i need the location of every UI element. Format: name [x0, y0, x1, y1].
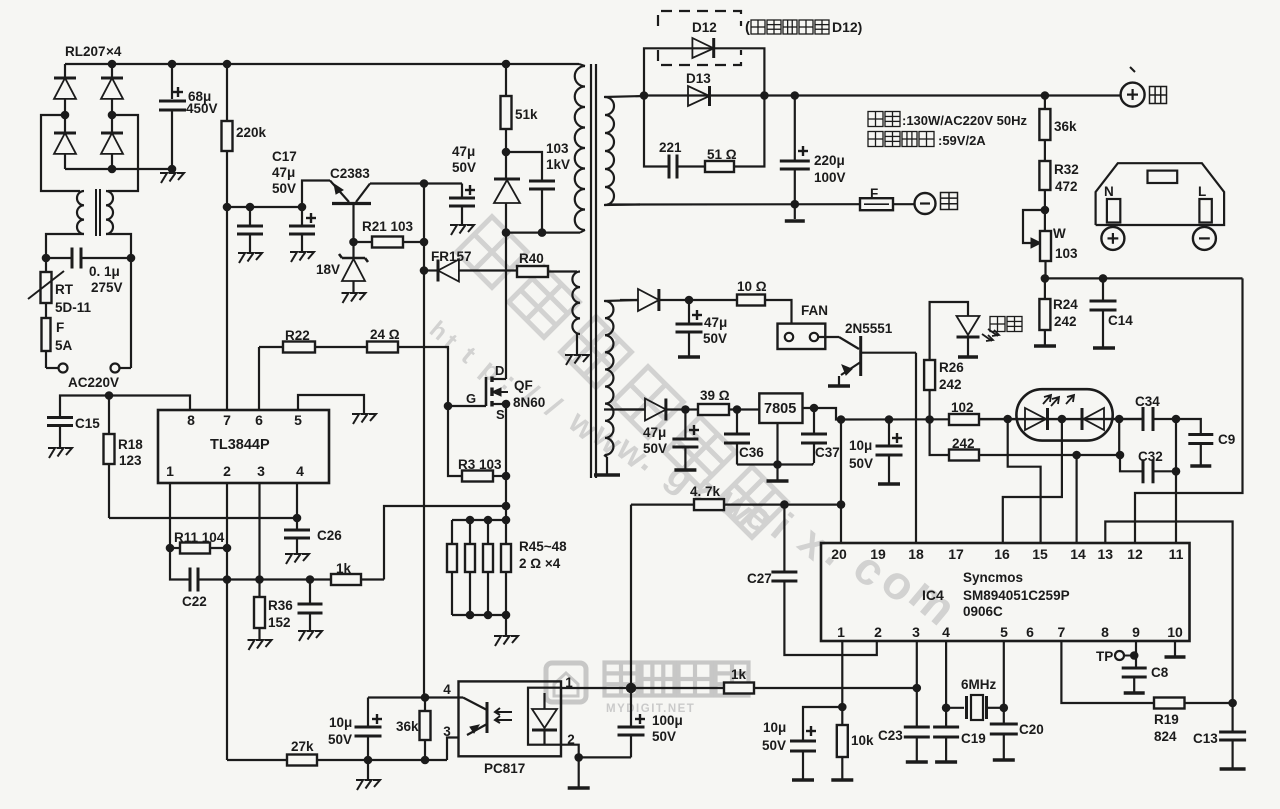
wire drain line	[505, 233, 507, 379]
ground C15	[48, 448, 55, 458]
svg-text:10μ: 10μ	[849, 438, 872, 453]
capacitor 47u 50V fan	[688, 300, 690, 324]
ground C23	[906, 760, 928, 764]
wire 7805 gnd pin	[776, 423, 778, 465]
label power led	[990, 317, 1005, 332]
svg-text:47μ: 47μ	[272, 165, 295, 180]
node pin20 top	[837, 415, 846, 424]
wire pin14 stem	[1075, 455, 1077, 543]
capacitor 0.1u 275V X-cap	[46, 257, 72, 259]
wire vcc node	[227, 206, 304, 208]
wire 10ohm to fan	[765, 300, 792, 324]
connector FAN	[778, 324, 826, 349]
wire collector to pin18	[915, 353, 917, 543]
wire pin1 stem	[841, 641, 843, 707]
svg-text:1kV: 1kV	[546, 157, 570, 172]
svg-text:51k: 51k	[515, 107, 538, 122]
terminal brown minus	[915, 193, 936, 214]
wire 221 loop	[644, 96, 669, 167]
ground C8	[1124, 691, 1145, 695]
wire pin7 vcc	[226, 207, 228, 410]
node C14	[1099, 274, 1108, 283]
wire riser to 4.7k	[630, 505, 632, 688]
svg-text:100μ: 100μ	[652, 713, 683, 728]
capacitor C32	[1120, 455, 1143, 471]
capacitor C37	[813, 408, 815, 434]
ground C14	[1093, 346, 1115, 350]
node 7805 gnd	[773, 460, 782, 469]
svg-text:R21 103: R21 103	[362, 219, 414, 234]
wire bridge left bracket	[41, 115, 80, 191]
svg-text:R19: R19	[1154, 712, 1179, 727]
capacitor C36	[736, 410, 738, 435]
wire top rail	[65, 63, 579, 65]
node C34 right	[1172, 415, 1181, 424]
wire 242 branch	[930, 420, 949, 456]
wire pin16 path	[1003, 419, 1062, 543]
svg-text:4: 4	[443, 682, 451, 697]
resistor 36k out	[1044, 96, 1046, 110]
svg-text:R32: R32	[1054, 162, 1079, 177]
wire through oval	[1008, 418, 1143, 420]
wire bridge bottom rail	[65, 168, 172, 170]
svg-text:220k: 220k	[236, 125, 267, 140]
svg-text:50V: 50V	[452, 160, 476, 175]
node 10u	[364, 756, 373, 765]
node collector junction	[420, 179, 429, 188]
resistor R18 123	[108, 396, 110, 435]
resistor R40	[517, 266, 548, 277]
ground 10u	[356, 780, 363, 790]
wire secondary lower mid tap	[604, 408, 645, 410]
regulator U5 7805	[759, 393, 802, 423]
wire collector	[370, 182, 462, 184]
wire pin4 stem	[296, 483, 298, 518]
svg-text:36k: 36k	[1054, 119, 1077, 134]
svg-text:275V: 275V	[91, 280, 123, 295]
transistor Q2 QF 8N60 mosfet	[448, 405, 486, 407]
svg-text:D: D	[495, 363, 504, 378]
ground C26	[285, 554, 292, 564]
svg-text:6: 6	[255, 412, 263, 428]
label brown	[941, 193, 958, 210]
wire R32 to pot	[1044, 190, 1046, 231]
wire pin2 ground stem	[578, 757, 580, 787]
wire 10u ground stem	[367, 760, 369, 780]
ground cap 47u	[450, 225, 457, 235]
svg-text:C8: C8	[1151, 665, 1169, 680]
wire pin6 riser	[258, 347, 260, 410]
svg-text:R45~48: R45~48	[519, 539, 567, 554]
svg-text:C20: C20	[1019, 722, 1044, 737]
svg-text:103: 103	[546, 141, 569, 156]
terminal AC220V right	[130, 258, 132, 368]
svg-text:50V: 50V	[849, 456, 873, 471]
node C37	[810, 404, 819, 413]
led PC817	[528, 688, 561, 745]
svg-text:R18: R18	[118, 437, 143, 452]
label power spec line1	[868, 112, 883, 127]
node TP	[1130, 651, 1139, 660]
svg-text:0906C: 0906C	[963, 604, 1003, 619]
node R3 right	[502, 472, 511, 481]
svg-text:N: N	[1104, 184, 1114, 199]
svg-text:C15: C15	[75, 416, 100, 431]
wire pin3 stem	[258, 483, 260, 580]
capacitor C14	[1102, 278, 1104, 301]
svg-text:7: 7	[223, 412, 231, 428]
capacitor at C17 node	[249, 207, 251, 226]
wire C32 to C34	[1175, 419, 1177, 471]
svg-text:5A: 5A	[55, 338, 73, 353]
resistor 51k	[505, 64, 507, 96]
svg-text:F: F	[56, 320, 64, 335]
wire pin7 stem	[1061, 641, 1154, 703]
svg-text:27k: 27k	[291, 739, 314, 754]
wire R40 to aux winding	[548, 270, 577, 272]
wire pin4 feedback rail	[109, 517, 297, 519]
svg-text:50V: 50V	[328, 732, 352, 747]
svg-text:8N60: 8N60	[513, 395, 545, 410]
diode fan rect	[620, 299, 638, 301]
svg-text:50V: 50V	[762, 738, 786, 753]
wire 7805 bottom rail	[737, 463, 813, 465]
wire pin12 path	[1135, 278, 1243, 543]
svg-text:20: 20	[831, 546, 847, 562]
svg-text:SM894051C259P: SM894051C259P	[963, 588, 1070, 603]
wire 7805 out	[803, 408, 842, 420]
svg-text:12: 12	[1127, 546, 1143, 562]
wire fuse to terminal	[893, 203, 914, 205]
svg-text:220μ: 220μ	[814, 153, 845, 168]
ground cap	[238, 253, 245, 263]
resistor R19 824	[1154, 698, 1185, 709]
label blue	[1150, 87, 1167, 104]
capacitor at R36 node	[309, 580, 311, 605]
svg-text:15: 15	[1032, 546, 1048, 562]
wire R45 ground	[505, 615, 507, 636]
wire emitter riser	[302, 181, 330, 208]
capacitor 221	[668, 155, 671, 179]
ground R24	[1034, 344, 1056, 348]
node R21 right	[420, 238, 429, 247]
transistor Q1 C2383	[332, 202, 371, 205]
resistor 39 ohm	[685, 408, 698, 410]
capacitor 10u 50V left	[367, 698, 369, 728]
ground R36	[248, 640, 255, 650]
svg-text:242: 242	[939, 377, 962, 392]
svg-text:50V: 50V	[643, 441, 667, 456]
svg-text:123: 123	[119, 453, 142, 468]
wire secondary upper bottom	[604, 203, 640, 206]
node C27 top	[780, 500, 789, 509]
ground 2N5551	[828, 384, 850, 388]
svg-text:5: 5	[1000, 624, 1008, 640]
wire oval right to row2	[1118, 419, 1120, 455]
svg-text:PC817: PC817	[484, 761, 525, 776]
svg-text:C13: C13	[1193, 731, 1218, 746]
svg-text:C9: C9	[1218, 432, 1235, 447]
svg-text:100V: 100V	[814, 170, 846, 185]
capacitor 10u 50V d	[803, 707, 842, 741]
capacitor C27	[783, 505, 785, 572]
capacitor C22	[170, 548, 190, 580]
resistor R11 104	[166, 544, 175, 553]
resistor R3 103	[448, 406, 462, 476]
svg-text:AC220V: AC220V	[68, 375, 119, 390]
resistor 242 row2	[949, 450, 979, 461]
node gate	[444, 402, 453, 411]
resistor R24 242	[1044, 278, 1046, 299]
node base	[349, 238, 358, 247]
svg-text:7: 7	[1058, 624, 1066, 640]
wire pin4 entry	[425, 696, 463, 698]
resistor 10 ohm	[737, 295, 765, 306]
svg-text:L: L	[1198, 184, 1206, 199]
node 7805 in	[733, 405, 742, 414]
svg-text:2N5551: 2N5551	[845, 321, 893, 336]
wire secondary upper top	[604, 96, 644, 97]
svg-text:102: 102	[951, 400, 974, 415]
node X-cap left	[42, 254, 51, 263]
node R26 bottom	[925, 415, 934, 424]
ground 7805	[767, 479, 789, 483]
svg-text:2 Ω ×4: 2 Ω ×4	[519, 556, 561, 571]
svg-text:6: 6	[1026, 624, 1034, 640]
svg-text:1: 1	[837, 624, 845, 640]
wire R22 to 24ohm	[315, 346, 367, 348]
fuse F 5A	[45, 303, 47, 318]
svg-text:1k: 1k	[731, 667, 747, 682]
wire pin10 stem	[1174, 641, 1176, 656]
diode FR157	[420, 266, 429, 275]
svg-text:4: 4	[296, 463, 304, 479]
transformer T2 primary winding	[575, 66, 585, 230]
diode led right	[1081, 408, 1084, 430]
node pin4	[293, 514, 302, 523]
svg-text:19: 19	[870, 546, 886, 562]
resistor 27k	[287, 755, 317, 766]
wire R26 to LED	[930, 302, 968, 360]
diode D3 bridge	[111, 64, 113, 78]
transformer T2 secondary lower	[605, 301, 613, 455]
resistor R21 103	[354, 241, 373, 243]
node snubber top	[502, 148, 511, 157]
op-amp U6 dual led optocoupler	[1016, 389, 1112, 440]
wire pin1 out	[561, 687, 631, 689]
wire D12 bracket	[644, 48, 764, 95]
wire pin1 stem	[169, 483, 171, 548]
transformer T2 secondary upper	[605, 97, 614, 205]
node bridge mid junctions	[61, 111, 70, 120]
svg-text:50V: 50V	[272, 181, 296, 196]
ground C9	[1190, 464, 1211, 468]
svg-text:D13: D13	[686, 71, 711, 86]
svg-text:10μ: 10μ	[763, 720, 786, 735]
node top rail junctions	[108, 60, 117, 69]
ground zener	[342, 293, 349, 303]
svg-text:152: 152	[268, 615, 291, 630]
wire pin11 stem	[1175, 471, 1177, 543]
arrows opto	[495, 708, 512, 715]
svg-text:2: 2	[223, 463, 231, 479]
svg-text:450V: 450V	[186, 101, 218, 116]
svg-text:242: 242	[952, 436, 975, 451]
node pin4	[942, 704, 951, 713]
wire choke right bottom	[106, 234, 131, 258]
node fb main	[626, 683, 636, 693]
svg-text:0. 1μ: 0. 1μ	[89, 264, 120, 279]
node VREF	[105, 391, 114, 400]
wire 1k to pin3 node	[754, 687, 917, 689]
ground C20	[993, 758, 1015, 762]
ground 10k	[831, 778, 853, 782]
svg-text:8: 8	[1101, 624, 1109, 640]
wire 1k riser to source	[384, 506, 506, 580]
op-amp U2 TL3844P	[158, 410, 329, 483]
svg-text:824: 824	[1154, 729, 1177, 744]
svg-text:36k: 36k	[396, 719, 419, 734]
capacitor C8	[1122, 667, 1147, 670]
capacitor C15	[47, 416, 73, 419]
svg-text:C34: C34	[1135, 394, 1160, 409]
transformer T1 common-mode choke	[77, 191, 84, 234]
svg-text:24 Ω: 24 Ω	[370, 327, 400, 342]
wire secondary lower top tap	[604, 300, 638, 301]
svg-text:18: 18	[908, 546, 924, 562]
op-amp U4 IC4 Syncmos	[821, 543, 1190, 641]
node pin1	[838, 703, 847, 712]
svg-text:1: 1	[166, 463, 174, 479]
wire aux to ground	[576, 334, 578, 355]
diode D1 bridge	[64, 64, 66, 78]
svg-text:Syncmos: Syncmos	[963, 570, 1023, 585]
svg-text:5: 5	[294, 412, 302, 428]
svg-text:47μ: 47μ	[704, 315, 727, 330]
svg-text:R22: R22	[285, 328, 310, 343]
op-amp U3 PC817 optocoupler	[459, 681, 562, 756]
svg-text:R36: R36	[268, 598, 293, 613]
resistor 10k	[841, 707, 843, 725]
wire gnd stem	[776, 465, 778, 481]
node pin2 gnd	[574, 753, 583, 762]
node oval mid	[1058, 415, 1067, 424]
resistor 36k	[424, 698, 426, 712]
resistor 51 ohm	[705, 161, 734, 172]
terminal TP	[1124, 655, 1130, 657]
wire 220u ground stem	[794, 204, 796, 219]
watermark mydigit logo	[546, 663, 749, 716]
svg-text:10k: 10k	[851, 733, 874, 748]
wire pin2 out	[561, 745, 579, 758]
resistor 220k	[222, 121, 233, 151]
svg-text:C22: C22	[182, 594, 207, 609]
capacitor C13	[1231, 703, 1233, 732]
resistor 102	[949, 414, 979, 425]
capacitor C19	[933, 726, 959, 729]
ground cap	[298, 631, 305, 641]
svg-text:C19: C19	[961, 731, 986, 746]
svg-text:11: 11	[1169, 546, 1184, 562]
wire base stem	[352, 204, 354, 243]
svg-text:7805: 7805	[764, 401, 796, 417]
svg-text:D12: D12	[692, 20, 717, 35]
svg-text:FR157: FR157	[431, 249, 472, 264]
ground 10u c	[878, 482, 900, 486]
wire collector vertical line	[423, 184, 425, 698]
node X-cap right	[127, 254, 136, 263]
svg-text:16: 16	[994, 546, 1010, 562]
svg-text:IC4: IC4	[922, 587, 944, 603]
wire secondary lower bottom	[604, 455, 607, 457]
wire bridge right bracket	[108, 115, 138, 191]
resistor R36 152	[258, 580, 260, 598]
resistor R32 472	[1044, 140, 1046, 161]
wire pin3 stem	[916, 641, 918, 727]
potentiometer W 103	[1023, 210, 1045, 243]
wire 24ohm to gate	[398, 347, 448, 406]
svg-text:18V: 18V	[316, 262, 340, 277]
svg-text:6MHz: 6MHz	[961, 677, 997, 692]
svg-text:QF: QF	[514, 378, 533, 393]
node 220u bottom	[791, 200, 800, 209]
wire comp rail	[227, 759, 447, 761]
svg-text:51 Ω: 51 Ω	[707, 147, 737, 162]
diode D2 bridge	[54, 132, 76, 135]
phototransistor PC817	[486, 702, 489, 733]
capacitor C20	[990, 723, 1018, 726]
node fan cap	[685, 296, 694, 305]
node R19 C13	[1228, 699, 1237, 708]
wire 102 to oval	[979, 418, 1008, 420]
terminal blue plus	[1121, 83, 1145, 107]
node 47u b	[681, 405, 690, 414]
svg-text:C27: C27	[747, 571, 772, 586]
node W out	[1041, 274, 1050, 283]
resistor R22	[259, 346, 283, 348]
svg-text:14: 14	[1070, 546, 1086, 562]
resistor R26 242	[928, 390, 930, 420]
wire pin2 stem	[226, 483, 228, 760]
wire choke left bottom	[46, 234, 84, 258]
ground R45-48	[494, 636, 501, 646]
transformer T2 aux winding	[572, 272, 580, 334]
node C32 right	[1172, 467, 1181, 476]
wire pin9 stem	[1135, 641, 1137, 668]
crystal 6MHz	[946, 707, 964, 709]
capacitor C9	[1176, 419, 1201, 435]
svg-text:R11 104: R11 104	[174, 530, 225, 545]
capacitor C26	[296, 518, 298, 530]
svg-text:R40: R40	[519, 251, 544, 266]
svg-text:RL207: RL207	[65, 44, 106, 59]
svg-text:103: 103	[1055, 246, 1078, 261]
svg-text:W: W	[1053, 226, 1066, 241]
node vcc junctions	[223, 203, 232, 212]
svg-text:5D-11: 5D-11	[55, 300, 92, 315]
svg-text:2: 2	[874, 624, 882, 640]
wire 5V rail	[841, 418, 1143, 421]
wire output rail	[644, 94, 1120, 96]
capacitor C17 47u 50V	[301, 207, 303, 226]
wire 51ohm up	[734, 96, 764, 167]
transformer T2 core	[590, 64, 592, 478]
svg-text:R24: R24	[1053, 297, 1078, 312]
ground pin5	[352, 414, 359, 424]
svg-text:8: 8	[187, 412, 195, 428]
svg-text:242: 242	[1054, 314, 1077, 329]
svg-text:TP: TP	[1096, 649, 1113, 664]
